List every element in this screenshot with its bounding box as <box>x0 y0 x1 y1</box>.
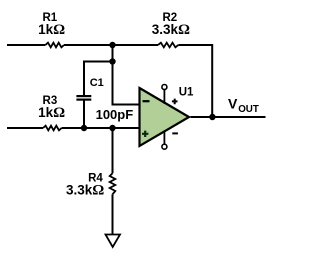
svg-text:OUT: OUT <box>238 104 259 115</box>
ground <box>106 235 121 248</box>
wire: lower wire from R3 to op-amp non-inverting input <box>62 127 140 129</box>
node: junction of R4 on lower wire <box>109 125 115 131</box>
wire: R4 bottom lead to ground <box>112 194 114 234</box>
node: junction of C1 bottom on lower wire <box>81 125 87 131</box>
wire: top wire from R1 to R2 <box>64 44 158 46</box>
svg-text:U1: U1 <box>179 86 194 98</box>
resistor R2 <box>158 43 178 48</box>
node: junction of R1, R2, inverting branch <box>109 42 115 48</box>
svg-text:C1: C1 <box>90 77 104 89</box>
op-amp negative supply pin circle <box>162 144 167 149</box>
node: output junction with feedback <box>209 114 215 120</box>
svg-text:1kΩ: 1kΩ <box>38 22 65 38</box>
wire: output wire <box>191 116 266 118</box>
op-amp positive supply pin stub <box>163 89 165 104</box>
op-amp U1 <box>140 88 190 146</box>
wire: top input wire left of R1 <box>7 44 45 46</box>
op-amp non-inverting input marker <box>142 131 148 137</box>
resistor R4 <box>110 173 116 194</box>
wire: inverting input branch from top junction <box>113 45 141 105</box>
op-amp positive supply marker <box>172 99 178 105</box>
op-amp negative supply pin stub <box>163 131 165 144</box>
svg-text:3.3kΩ: 3.3kΩ <box>66 183 104 199</box>
wire: branch to C1 top <box>84 62 113 96</box>
resistor R1 <box>45 43 64 48</box>
op-amp inverting input marker <box>143 100 150 102</box>
op-amp negative supply marker <box>172 132 178 134</box>
svg-text:V: V <box>228 96 238 112</box>
svg-text:3.3kΩ: 3.3kΩ <box>152 22 190 38</box>
svg-text:100pF: 100pF <box>96 107 134 122</box>
wire: R4 top lead <box>112 128 114 173</box>
wire: feedback from R2 down to output node <box>178 45 212 117</box>
resistor R3 <box>43 126 62 131</box>
wire: C1 bottom lead to lower wire <box>83 100 85 128</box>
op-amp positive supply pin circle <box>162 85 167 90</box>
wire: lower input wire left of R3 <box>7 127 43 129</box>
capacitor C1 <box>76 96 91 100</box>
node: junction of C1 branch on inverting line <box>109 58 115 64</box>
svg-text:1kΩ: 1kΩ <box>38 105 65 121</box>
